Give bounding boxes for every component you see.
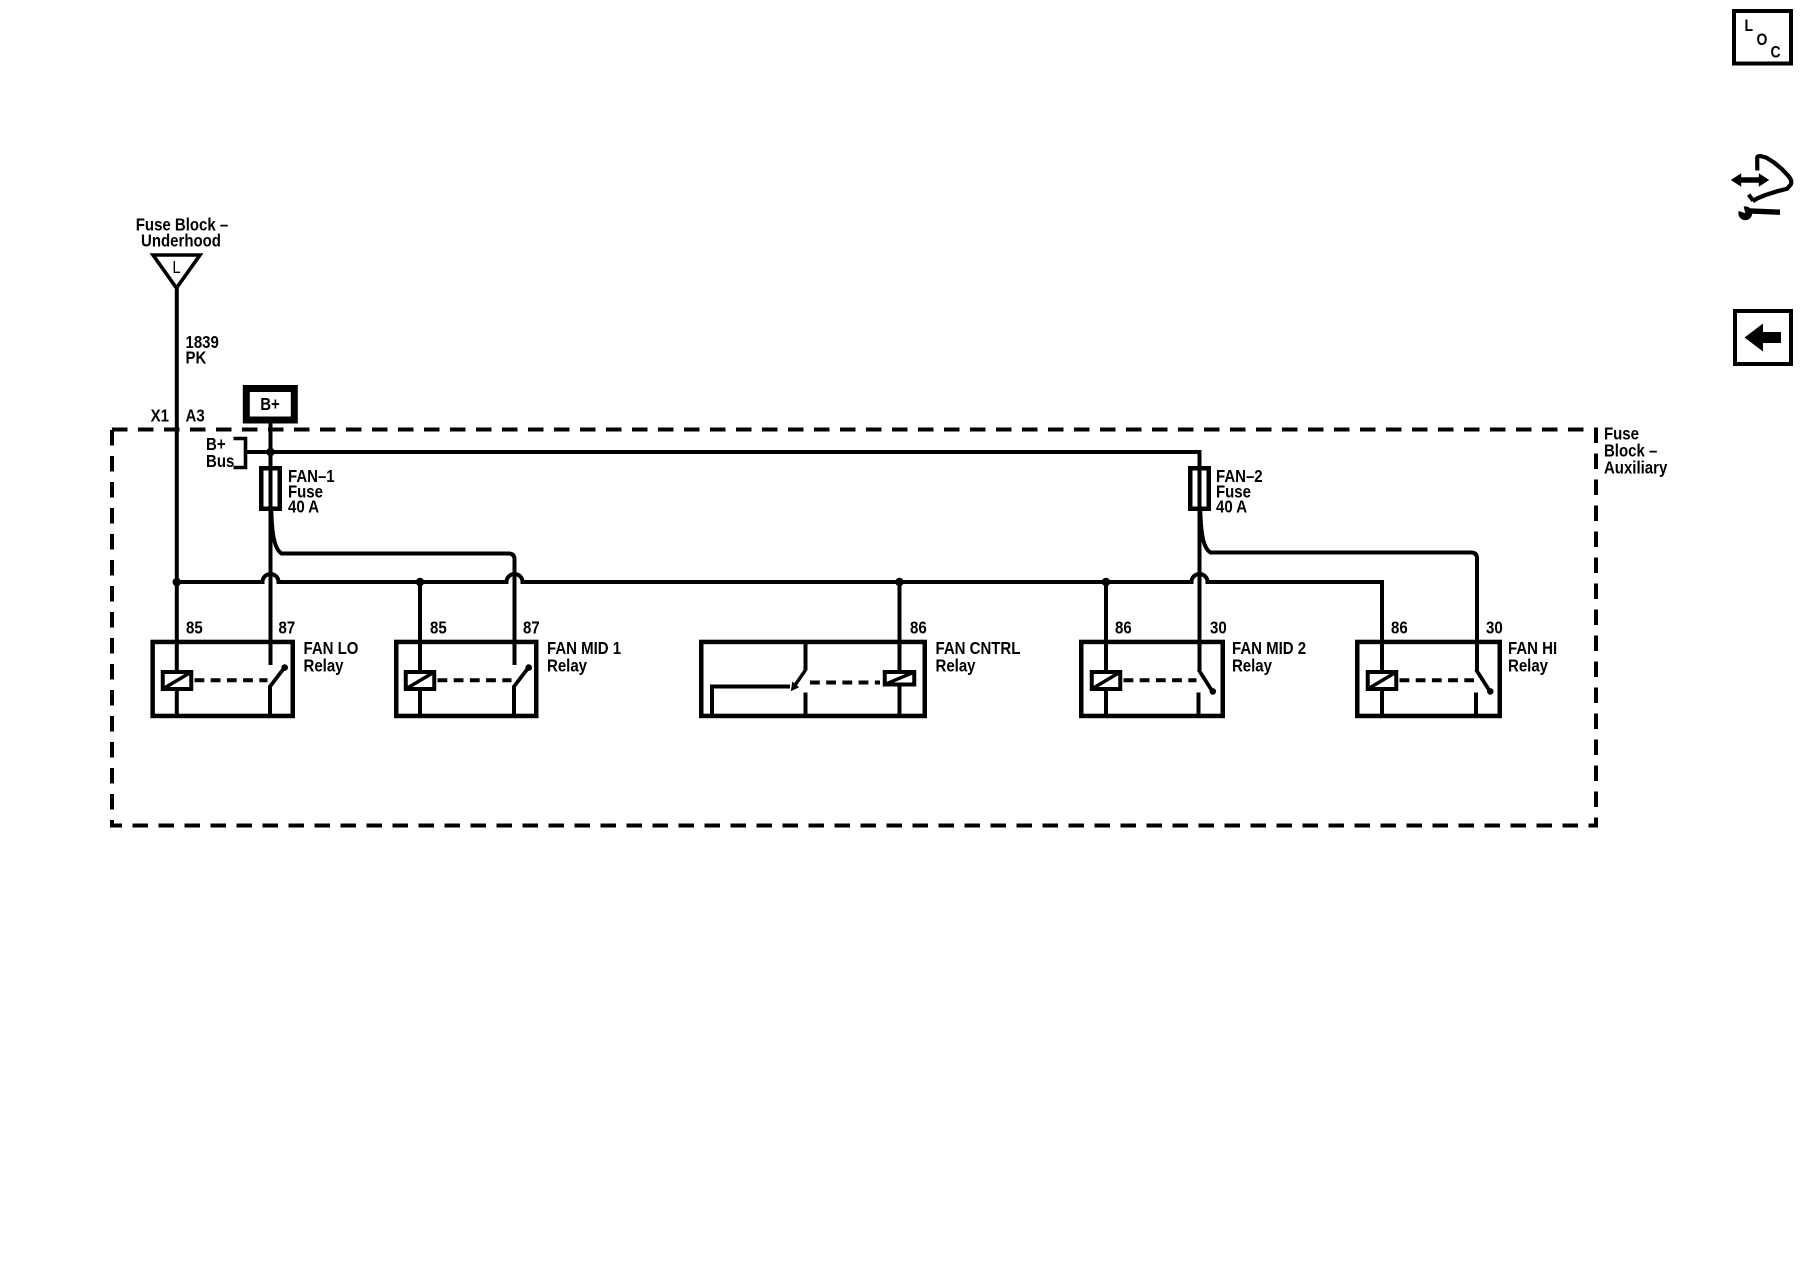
svg-text:L: L <box>1745 17 1754 35</box>
svg-text:87: 87 <box>279 618 296 637</box>
svg-text:C: C <box>1771 43 1781 61</box>
svg-text:40 A: 40 A <box>288 498 319 517</box>
svg-text:A3: A3 <box>186 406 205 425</box>
svg-text:Relay: Relay <box>936 656 977 675</box>
svg-text:85: 85 <box>430 618 447 637</box>
svg-text:86: 86 <box>1391 618 1408 637</box>
svg-text:X1: X1 <box>151 406 169 425</box>
svg-text:PK: PK <box>186 348 207 367</box>
svg-text:40 A: 40 A <box>1216 498 1247 517</box>
svg-text:Underhood: Underhood <box>141 231 221 250</box>
svg-text:Auxiliary: Auxiliary <box>1604 458 1668 477</box>
svg-text:86: 86 <box>1115 618 1132 637</box>
svg-text:O: O <box>1757 31 1768 49</box>
svg-text:Bus: Bus <box>206 452 234 471</box>
svg-text:30: 30 <box>1486 618 1503 637</box>
svg-text:L: L <box>172 258 180 277</box>
svg-text:87: 87 <box>523 618 540 637</box>
svg-text:Relay: Relay <box>547 656 588 675</box>
svg-text:85: 85 <box>186 618 203 637</box>
svg-text:Relay: Relay <box>1508 656 1549 675</box>
svg-text:Relay: Relay <box>1232 656 1273 675</box>
svg-text:Relay: Relay <box>304 656 345 675</box>
svg-text:86: 86 <box>910 618 927 637</box>
svg-text:B+: B+ <box>260 395 280 414</box>
svg-text:30: 30 <box>1210 618 1227 637</box>
